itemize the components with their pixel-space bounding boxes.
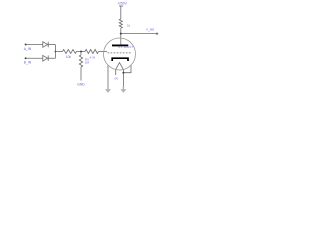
svg-text:v_out: v_out: [146, 27, 154, 31]
svg-text:1k: 1k: [127, 23, 131, 27]
svg-text:4.7k: 4.7k: [90, 56, 96, 60]
svg-text:10k: 10k: [66, 55, 72, 59]
svg-text:A_IN: A_IN: [24, 47, 32, 51]
svg-text:1M: 1M: [85, 60, 90, 64]
svg-text:+250V: +250V: [117, 1, 127, 5]
svg-text:0V: 0V: [115, 76, 119, 80]
svg-text:B_IN: B_IN: [24, 61, 32, 65]
svg-text:U1 12AX7: U1 12AX7: [118, 45, 133, 49]
svg-text:GND: GND: [77, 83, 85, 87]
